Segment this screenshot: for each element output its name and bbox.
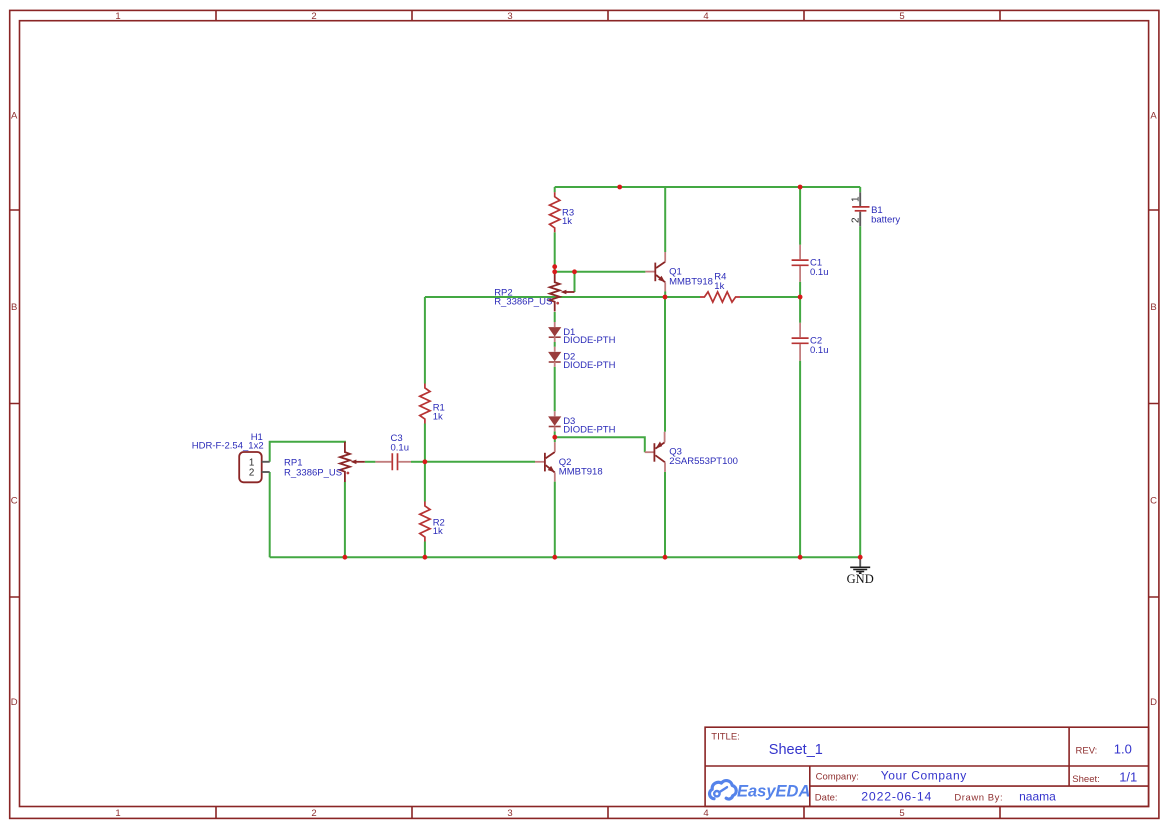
wire D1 to D2 xyxy=(554,342,556,347)
svg-text:1k: 1k xyxy=(714,281,724,292)
svg-text:3: 3 xyxy=(507,808,512,819)
svg-text:1k: 1k xyxy=(433,411,443,422)
wire Q1 collector to rail xyxy=(664,187,666,252)
svg-text:2: 2 xyxy=(249,468,254,479)
wire C3 to node xyxy=(411,461,425,463)
capacitor C1 xyxy=(792,245,829,282)
svg-text:1.0: 1.0 xyxy=(1114,742,1132,757)
wire node to Q1 base xyxy=(555,271,646,273)
battery B1 xyxy=(851,192,901,226)
svg-text:DIODE-PTH: DIODE-PTH xyxy=(563,335,615,346)
wire RP1 bottom to ground rail xyxy=(344,482,346,557)
wire R3 top lead to rail xyxy=(554,187,556,192)
wire RP1 wiper to C3 xyxy=(365,461,376,463)
svg-text:2: 2 xyxy=(311,808,316,819)
svg-text:2: 2 xyxy=(311,11,316,22)
border column ticks top xyxy=(216,10,1000,20)
svg-text:1: 1 xyxy=(851,196,862,202)
svg-text:2SAR553PT100: 2SAR553PT100 xyxy=(669,456,738,467)
wire H1 pin1 to RP1 top xyxy=(270,442,345,462)
wire D2 to D3 xyxy=(554,367,556,412)
wire H1 pin2 to ground rail xyxy=(269,472,271,557)
potentiometer RP1 xyxy=(284,442,365,482)
wire vertical to R1 xyxy=(424,297,426,384)
svg-text:5: 5 xyxy=(899,808,904,819)
diode D1 xyxy=(548,322,615,346)
svg-text:battery: battery xyxy=(871,215,900,226)
wire node to Q3 emitter xyxy=(664,297,666,432)
svg-text:0.1u: 0.1u xyxy=(391,443,410,454)
svg-text:4: 4 xyxy=(703,11,708,22)
svg-text:Date:: Date: xyxy=(815,792,838,803)
transistor Q2 xyxy=(535,442,603,482)
wire bottom ground rail xyxy=(270,556,861,558)
title block texts xyxy=(711,732,1137,804)
wire battery top drop xyxy=(859,187,861,192)
svg-text:MMBT918: MMBT918 xyxy=(559,467,603,478)
svg-text:GND: GND xyxy=(847,572,874,586)
svg-text:1: 1 xyxy=(115,11,120,22)
svg-text:TITLE:: TITLE: xyxy=(711,732,740,743)
transistor Q3 xyxy=(645,432,738,472)
svg-text:2: 2 xyxy=(851,217,862,223)
wire C2 to ground rail xyxy=(799,361,801,557)
diode D3 xyxy=(548,411,615,435)
wire Q1 emitter to node xyxy=(664,292,666,298)
title block frame xyxy=(705,727,1149,806)
resistor R4 xyxy=(700,272,740,302)
wire long horizontal net xyxy=(425,296,800,298)
svg-text:EasyEDA: EasyEDA xyxy=(737,783,810,801)
svg-text:C: C xyxy=(11,496,18,507)
svg-text:1: 1 xyxy=(115,808,120,819)
border row ticks right xyxy=(1149,210,1159,597)
wire battery to ground rail xyxy=(859,226,861,557)
svg-text:3: 3 xyxy=(507,11,512,22)
svg-text:4: 4 xyxy=(703,808,708,819)
wire node to Q2 base xyxy=(425,461,535,463)
row labels left xyxy=(11,111,18,708)
wire C1 to C2 node xyxy=(799,282,801,323)
column labels top xyxy=(115,11,904,22)
wire D3 to node xyxy=(554,431,556,437)
svg-text:Sheet:: Sheet: xyxy=(1072,774,1099,785)
border row ticks left xyxy=(10,210,20,597)
wire RP2 wiper link xyxy=(574,272,576,292)
wire C1 top xyxy=(799,187,801,245)
border column ticks bottom xyxy=(216,807,1000,819)
row labels right xyxy=(1150,111,1157,708)
svg-text:1/1: 1/1 xyxy=(1119,770,1137,785)
header H1 xyxy=(192,432,270,482)
svg-text:5: 5 xyxy=(899,11,904,22)
transistor Q1 xyxy=(645,252,713,292)
svg-text:2022-06-14: 2022-06-14 xyxy=(861,790,932,804)
potentiometer RP2 xyxy=(494,273,574,312)
svg-text:C: C xyxy=(1150,496,1157,507)
resistor R2 xyxy=(420,502,445,542)
svg-text:MMBT918: MMBT918 xyxy=(669,276,713,287)
resistor R1 xyxy=(420,384,445,424)
wire R1 to C3 node xyxy=(424,424,426,462)
wire C3 node to R2 xyxy=(424,462,426,502)
capacitor C2 xyxy=(792,323,829,361)
svg-text:R_3386P_US: R_3386P_US xyxy=(494,296,552,307)
wire R3 bottom to node xyxy=(554,232,556,272)
svg-text:A: A xyxy=(11,111,18,122)
svg-text:D: D xyxy=(11,697,18,708)
capacitor C3 xyxy=(375,433,411,470)
svg-text:DIODE-PTH: DIODE-PTH xyxy=(563,425,615,436)
svg-text:REV:: REV: xyxy=(1076,746,1098,757)
svg-text:DIODE-PTH: DIODE-PTH xyxy=(563,360,615,371)
svg-text:HDR-F-2.54_1x2: HDR-F-2.54_1x2 xyxy=(192,441,264,452)
diode D2 xyxy=(548,347,615,371)
svg-text:Company:: Company: xyxy=(816,772,859,783)
wire Q3 collector to ground rail xyxy=(664,472,666,557)
svg-text:Sheet_1: Sheet_1 xyxy=(769,742,823,758)
svg-text:naama: naama xyxy=(1019,790,1056,804)
svg-text:R_3386P_US: R_3386P_US xyxy=(284,468,342,479)
EasyEDA logo xyxy=(710,781,737,799)
resistor R3 xyxy=(550,192,575,232)
wire RP2 bottom to D1 xyxy=(554,312,556,322)
svg-text:0.1u: 0.1u xyxy=(810,345,829,356)
svg-text:A: A xyxy=(1150,111,1157,122)
column labels bottom xyxy=(115,808,904,819)
svg-text:1k: 1k xyxy=(433,526,443,537)
svg-text:B: B xyxy=(1150,302,1156,313)
svg-text:D: D xyxy=(1150,697,1157,708)
svg-text:0.1u: 0.1u xyxy=(810,267,829,278)
ground GND xyxy=(847,557,874,586)
wire Q2 collector to node xyxy=(554,437,556,442)
wire Q2 emitter to ground rail xyxy=(554,482,556,558)
svg-text:Drawn By:: Drawn By: xyxy=(954,792,1003,803)
wire R2 to ground rail xyxy=(424,542,426,558)
svg-text:B: B xyxy=(11,302,17,313)
wire top power rail xyxy=(555,186,861,188)
junction node dots xyxy=(343,185,863,560)
wire node to Q3 base xyxy=(555,437,645,452)
svg-text:1k: 1k xyxy=(562,216,572,227)
svg-text:Your Company: Your Company xyxy=(881,769,967,783)
